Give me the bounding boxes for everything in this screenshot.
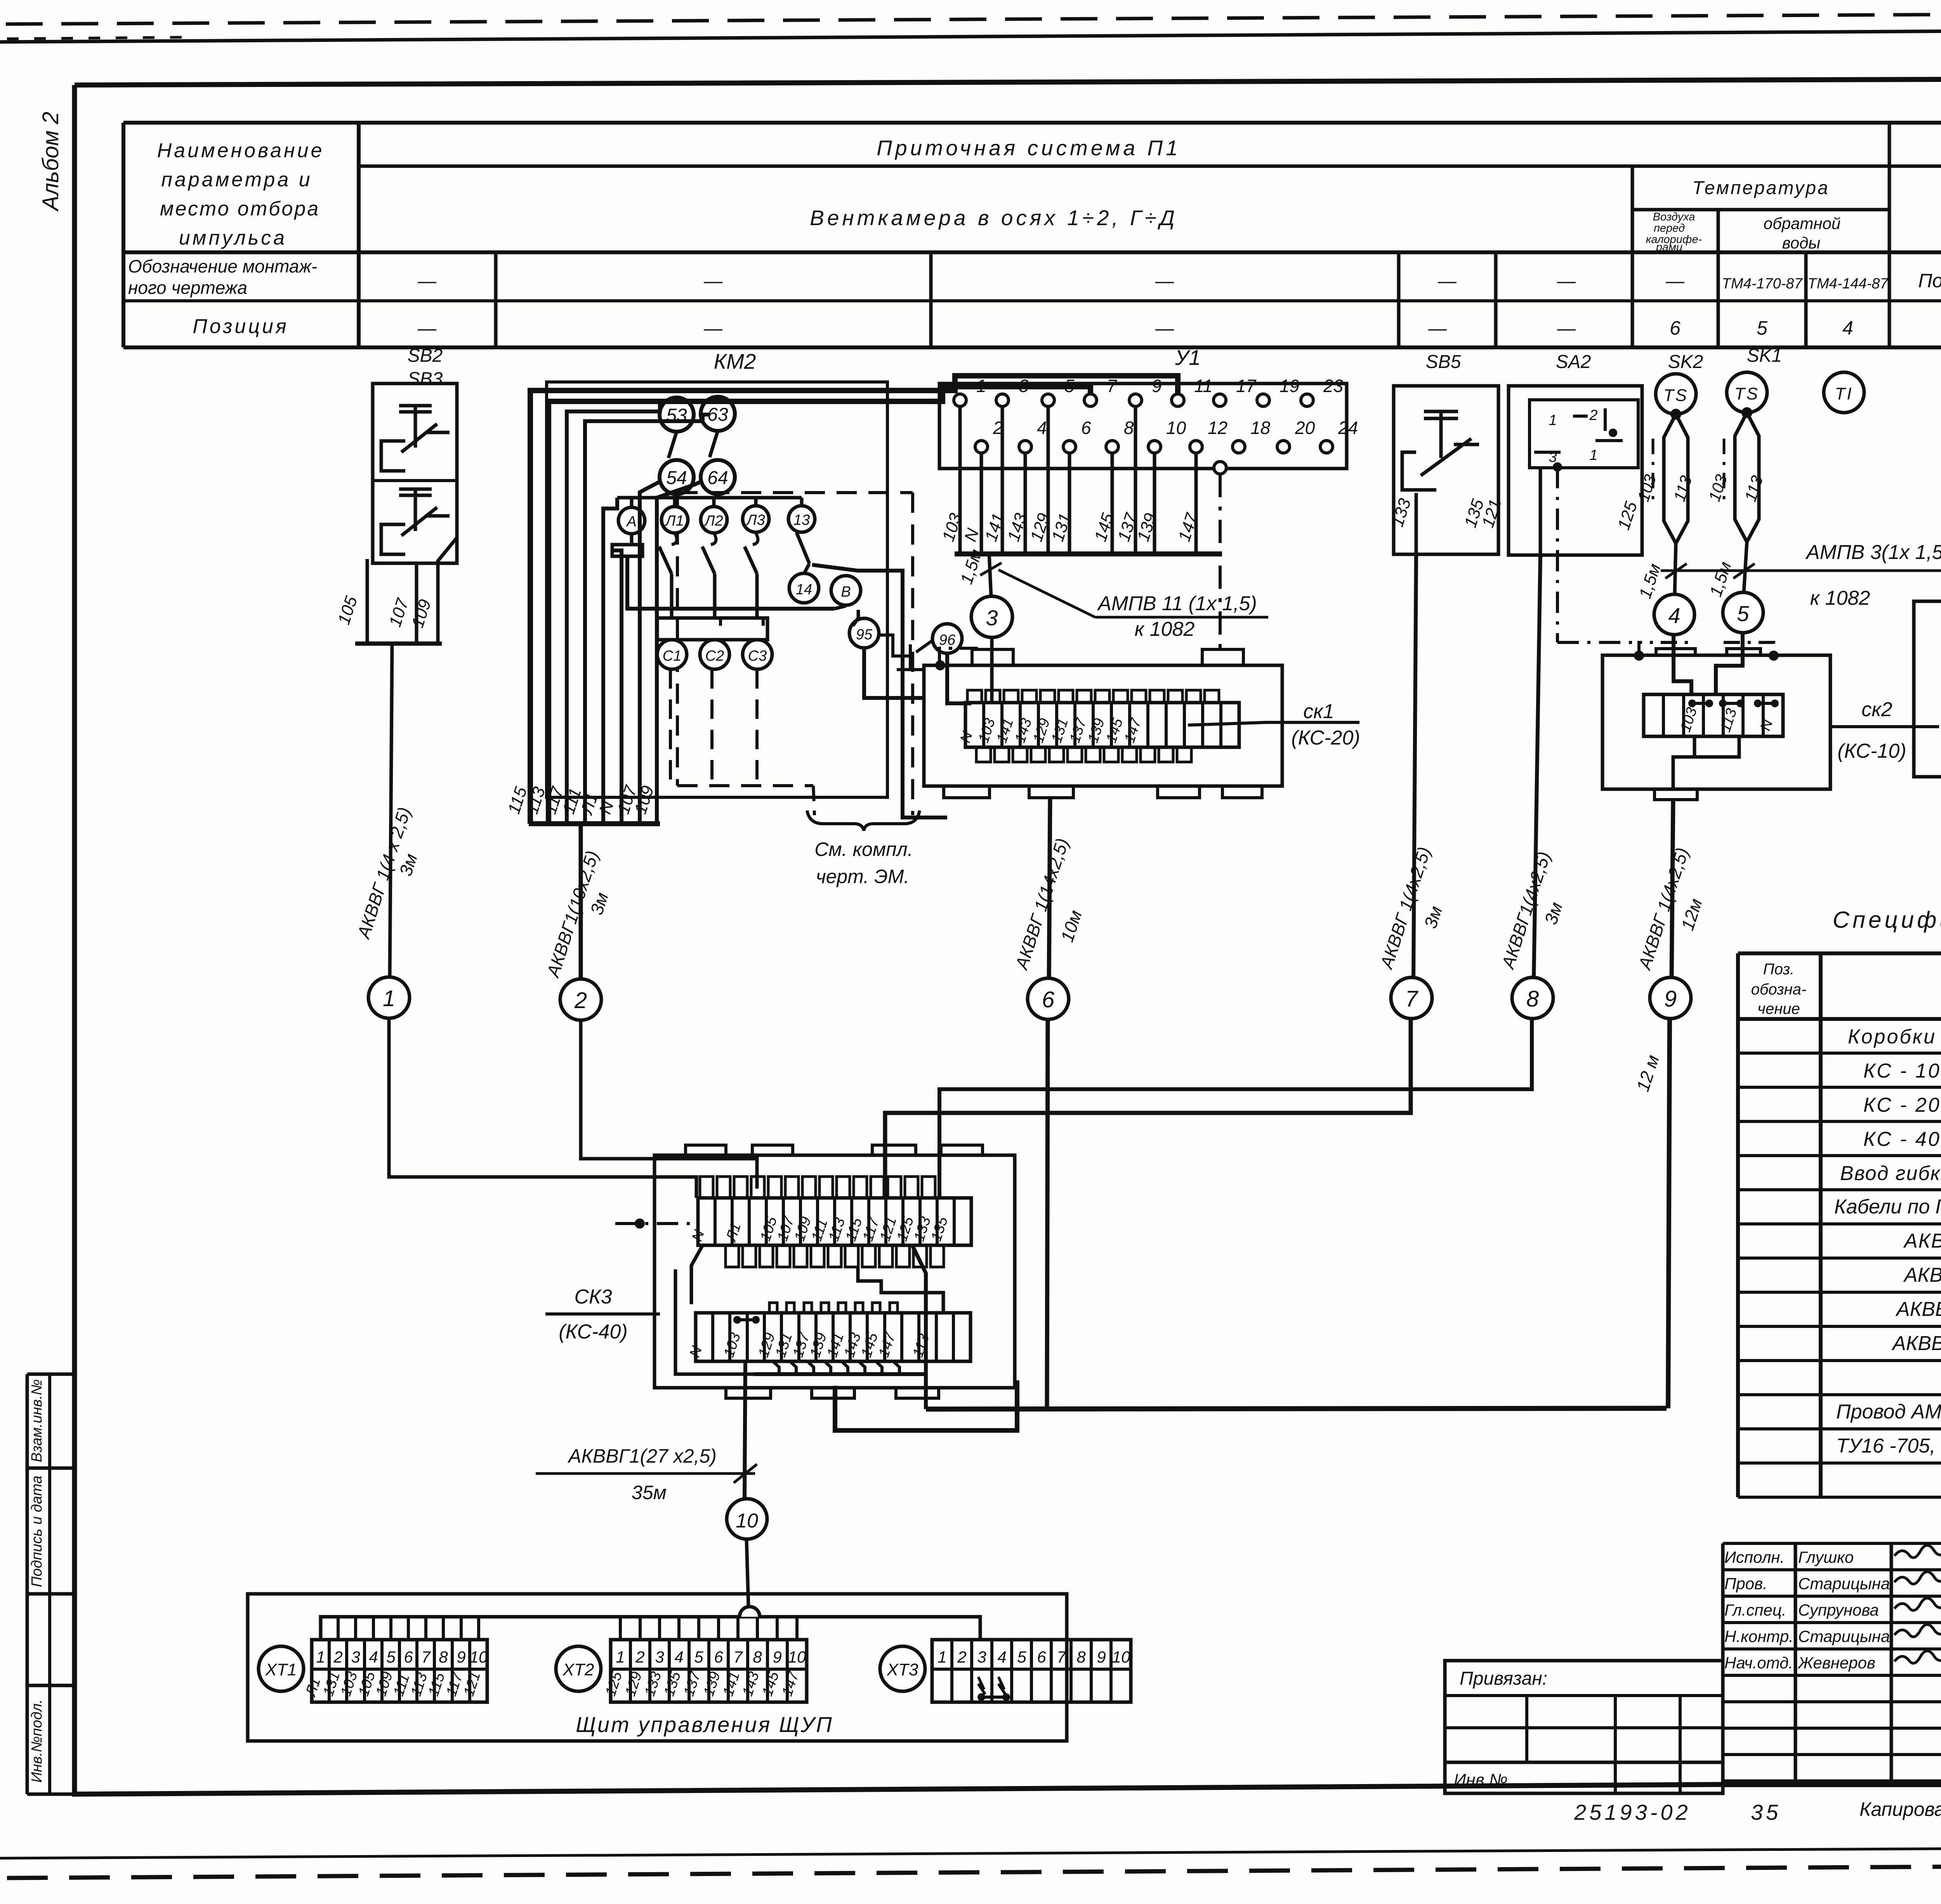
thermal relay box (657, 618, 767, 640)
СК2 terminal strip (1644, 694, 1783, 736)
svg-text:18: 18 (1250, 418, 1271, 438)
svg-text:1: 1 (616, 1648, 625, 1666)
svg-text:4: 4 (1842, 317, 1853, 339)
svg-text:6: 6 (1037, 1648, 1046, 1666)
svg-text:63: 63 (707, 404, 728, 425)
circle 14 (789, 573, 819, 603)
svg-text:(КС-10): (КС-10) (1837, 740, 1906, 762)
wire from node 2 to СК3 (581, 1020, 757, 1189)
pushbutton contact SB3 (414, 489, 417, 531)
svg-text:Жевнеров: Жевнеров (1797, 1654, 1875, 1672)
svg-text:4: 4 (1668, 603, 1680, 628)
svg-text:КС - 40: КС - 40 (1863, 1128, 1941, 1151)
wire from node 1 to CK3 (389, 1018, 696, 1198)
svg-text:10: 10 (470, 1648, 488, 1666)
svg-text:Л3: Л3 (745, 512, 765, 528)
СК1 top tab (972, 649, 1013, 665)
bottom thin line (0, 1846, 1941, 1858)
svg-text:КС - 10: КС - 10 (1863, 1060, 1941, 1082)
svg-text:Приточная система П1: Приточная система П1 (877, 136, 1181, 160)
svg-text:У1: У1 (1175, 345, 1201, 370)
dash-dot bracket at СК1 top-left (939, 648, 978, 664)
svg-text:С3: С3 (748, 648, 767, 664)
bundle wire 111 to contact 63 (585, 415, 709, 824)
svg-text:6: 6 (1042, 987, 1055, 1012)
Привязан box (1445, 1661, 1723, 1793)
svg-text:2: 2 (574, 988, 587, 1013)
svg-text:Спецификация: Спецификация (1833, 907, 1941, 933)
SK2 sensor fork wires 103/113 (1670, 409, 1681, 420)
svg-text:11: 11 (1194, 376, 1213, 396)
svg-text:8: 8 (753, 1648, 762, 1666)
СК2 jumper bars with dots (1692, 702, 1709, 705)
top bus inside KM2 (617, 496, 802, 500)
СК3 bottom feet (726, 1388, 771, 1398)
svg-text:КМ2: КМ2 (714, 349, 756, 373)
switch stroke 63-64 (710, 431, 718, 457)
svg-text:Кабели по ГОСТ 1508-78*Е, 6: Кабели по ГОСТ 1508-78*Е, 660В (1834, 1196, 1941, 1218)
svg-text:23: 23 (1323, 376, 1344, 396)
svg-text:перед: перед (1654, 222, 1685, 234)
svg-text:—: — (703, 271, 723, 292)
svg-text:9: 9 (1664, 986, 1677, 1012)
brace см.компл (807, 811, 920, 831)
dash-dot into СК3 with dot (615, 1222, 696, 1225)
svg-text:—: — (417, 271, 437, 292)
svg-text:С1: С1 (663, 648, 682, 664)
svg-text:ХТ2: ХТ2 (563, 1660, 594, 1679)
svg-text:Привязан:: Привязан: (1460, 1668, 1547, 1689)
svg-text:3: 3 (977, 1648, 986, 1666)
node 4 circle (1654, 594, 1694, 635)
pushbutton contact SB2 (414, 406, 417, 448)
svg-text:2: 2 (957, 1648, 966, 1666)
svg-text:4: 4 (369, 1648, 378, 1666)
svg-text:—: — (1557, 271, 1576, 292)
node 3 circle (971, 596, 1012, 637)
wire node 10 to ЩУП (747, 1539, 748, 1607)
svg-text:(КС-20): (КС-20) (1291, 727, 1360, 749)
svg-text:10: 10 (788, 1648, 806, 1666)
svg-text:6: 6 (1670, 317, 1681, 339)
svg-text:—: — (1155, 271, 1174, 292)
svg-text:8: 8 (1124, 418, 1134, 438)
bundle wire 113 to У1 terminal 7 (549, 387, 1090, 824)
У1 terminal wires down (958, 406, 962, 554)
svg-text:—: — (417, 318, 437, 339)
svg-text:12: 12 (1208, 418, 1227, 438)
dash-dot corners above СК2 (1639, 642, 1689, 656)
junction box СК3 outline (655, 1155, 1015, 1388)
node 5 circle (1723, 592, 1763, 633)
svg-text:35м: 35м (632, 1482, 667, 1503)
switch stroke 53-54 (668, 432, 677, 458)
СК3 top tabs (686, 1145, 726, 1155)
svg-text:—: — (1557, 318, 1576, 339)
svg-text:В: В (841, 584, 851, 600)
svg-text:Л1: Л1 (664, 513, 684, 529)
svg-text:Гл.спец.: Гл.спец. (1724, 1601, 1786, 1619)
dashed wires below С circles (669, 669, 672, 782)
svg-text:64: 64 (707, 468, 728, 488)
tick mark on wire (980, 563, 1002, 575)
svg-text:4: 4 (1037, 418, 1047, 438)
wire fork SK2 to node 4 with 1,5м (1675, 543, 1676, 594)
svg-text:Температура: Температура (1692, 178, 1830, 198)
svg-text:Коробки соединительные: Коробки соединительные (1848, 1026, 1941, 1048)
node 9 circle (1650, 977, 1691, 1019)
wire 13 to СК1 area (812, 565, 947, 817)
bundle wire 115 to У1 terminal 11 (530, 376, 1178, 824)
svg-text:95: 95 (856, 627, 873, 643)
СК2 bottom tab (1655, 789, 1697, 800)
СК3 lower terminal strip (696, 1313, 970, 1361)
wire B to bus (835, 606, 846, 609)
wire node9 down to long bus (1668, 1019, 1670, 1408)
svg-text:обратной: обратной (1764, 214, 1841, 233)
svg-text:рами: рами (1656, 241, 1682, 253)
SB wires bottom bus (355, 642, 442, 646)
svg-text:Наименование: Наименование (157, 139, 325, 162)
svg-text:Пров.: Пров. (1724, 1574, 1767, 1593)
svg-text:черт. ЭМ.: черт. ЭМ. (816, 866, 910, 887)
node 10 circle (727, 1499, 767, 1539)
svg-text:к 1082: к 1082 (1135, 618, 1195, 640)
У1 extra terminal on bottom edge (1214, 462, 1226, 474)
У1 bottom bus (955, 552, 1222, 557)
main contact circles А Л1 Л2 Л3 13 (618, 507, 645, 534)
cable wire У1 to node 3 (989, 554, 991, 596)
svg-text:—: — (1438, 271, 1457, 292)
KM2 auxiliary contact circles 53 63 54 64 (660, 397, 694, 432)
cable wire to node 2 (579, 824, 583, 979)
svg-text:АКВВГ 10 х 2,5: АКВВГ 10 х 2,5 (1903, 1264, 1941, 1286)
svg-text:АКВВГ 27 х 2,5: АКВВГ 27 х 2,5 (1891, 1332, 1941, 1355)
svg-text:место отбора: место отбора (160, 198, 320, 220)
svg-text:7: 7 (1107, 376, 1117, 396)
SA2 inner detail (1530, 400, 1638, 468)
svg-text:TS: TS (1663, 386, 1688, 405)
SA2 wires down / dash-dot (1539, 468, 1542, 555)
circle 95 (849, 618, 879, 648)
wire stubs 105/107/109 below SB2 box (366, 559, 369, 644)
wire node3 to СК1 strip (990, 637, 994, 703)
svg-text:—: — (1665, 271, 1685, 292)
instrument TS (SK1) (1727, 372, 1767, 413)
svg-text:7: 7 (1057, 1648, 1066, 1666)
svg-text:Альбом 2: Альбом 2 (38, 112, 63, 212)
СК1 terminal strip (965, 703, 1239, 747)
bottom dashed line (7, 1863, 1941, 1878)
svg-text:ТМ4-144-87: ТМ4-144-87 (1807, 276, 1889, 292)
svg-text:ТУ16 -705, 145-80: ТУ16 -705, 145-80 (1836, 1435, 1941, 1457)
svg-text:См. компл.: См. компл. (814, 838, 913, 860)
svg-text:13: 13 (793, 512, 810, 528)
cable SA2 to node 8 (1534, 555, 1540, 977)
У1 terminals even row (975, 441, 988, 453)
pushbutton box SB2/SB3 (373, 384, 457, 563)
svg-text:8: 8 (1526, 986, 1539, 1012)
svg-text:Обозначение монтаж-: Обозначение монтаж- (128, 256, 317, 276)
svg-text:6: 6 (1081, 418, 1091, 438)
node 6 circle (1028, 978, 1069, 1019)
СК1 bottom feet (944, 786, 990, 798)
cable СК3 to node 10 (745, 1361, 745, 1499)
thermal element transistor symbol (879, 635, 910, 656)
terminal strip XT2 circle (556, 1646, 601, 1691)
svg-text:9: 9 (1152, 376, 1162, 396)
circle В (831, 576, 861, 605)
СК3 upper strip bottom tabs (726, 1245, 739, 1267)
terminal strip XT1 circle (259, 1646, 304, 1691)
svg-text:19: 19 (1280, 376, 1299, 396)
SB5 internal wires down (1415, 493, 1418, 554)
svg-text:ск1: ск1 (1303, 700, 1334, 723)
СК3 lower strip bottom elbows and bus (773, 1361, 779, 1374)
svg-text:9: 9 (1097, 1648, 1106, 1666)
svg-text:Инв.№: Инв.№ (1454, 1770, 1508, 1789)
svg-text:SK2: SK2 (1668, 352, 1703, 372)
main contact strokes Л1 Л2 Л3 (659, 547, 672, 574)
svg-text:3: 3 (986, 606, 998, 630)
left stamp column (26, 1374, 29, 1794)
title block signature grid (1723, 1542, 1941, 1545)
svg-text:параметра и: параметра и (161, 168, 312, 191)
instrument TS (SK2) (1656, 374, 1696, 414)
svg-text:1: 1 (383, 986, 395, 1011)
connector У1 box (939, 384, 1347, 469)
panel box ЩУ1 (1914, 601, 1941, 777)
svg-text:ХТ3: ХТ3 (887, 1660, 918, 1679)
dashed contactor boundary box (677, 491, 913, 494)
leader АМПВ 11 (998, 570, 1095, 617)
svg-text:—: — (703, 318, 723, 339)
svg-text:TS: TS (1734, 384, 1759, 403)
svg-text:35: 35 (1751, 1800, 1781, 1824)
terminal strip XT3 (932, 1640, 1131, 1702)
bundle wire N to coil (612, 550, 622, 824)
terminal strip XT2 (611, 1640, 807, 1702)
СК3 lower strip top bumps (769, 1303, 777, 1313)
node 8 circle (1512, 977, 1553, 1019)
svg-text:1: 1 (1549, 412, 1557, 429)
svg-text:(КС-40): (КС-40) (559, 1321, 627, 1343)
svg-text:Ввод гибкий К 1082: Ввод гибкий К 1082 (1840, 1162, 1941, 1185)
svg-text:ТМ4-170-87: ТМ4-170-87 (1722, 276, 1803, 292)
svg-text:СК3: СК3 (574, 1286, 612, 1308)
СК1 top tab 2 (1202, 649, 1243, 665)
СК1 strip top tabs (967, 690, 982, 703)
svg-text:7: 7 (733, 1648, 743, 1666)
svg-text:SB3: SB3 (408, 369, 443, 389)
U jumper under СК3 (835, 1380, 1017, 1430)
svg-text:Старицына: Старицына (1798, 1627, 1890, 1645)
СК3 upper strip top tabs (700, 1177, 713, 1198)
svg-text:АМПВ 11 (1х 1,5): АМПВ 11 (1х 1,5) (1097, 592, 1257, 615)
svg-text:Глушко: Глушко (1798, 1548, 1854, 1566)
wire node 6 down to bus (1047, 1019, 1048, 1409)
cable bundle baseline (529, 821, 660, 826)
svg-text:Н.контр.: Н.контр. (1724, 1627, 1793, 1645)
svg-text:По чертежам завода: По чертежам завода (1918, 270, 1941, 292)
svg-text:17: 17 (1236, 376, 1257, 396)
junction box СК1 outline (924, 665, 1282, 786)
svg-text:4: 4 (674, 1648, 683, 1666)
pushbutton contact SB5 (1439, 411, 1443, 458)
contactor KM2 outer box (547, 382, 887, 797)
svg-text:5: 5 (1757, 317, 1767, 339)
svg-text:5: 5 (1737, 601, 1749, 626)
svg-text:2: 2 (1589, 407, 1597, 423)
cable label АМПВ 3(1х1,5) к 1082 (1661, 569, 1941, 572)
circle 96 (932, 624, 962, 653)
СК3 lower strip jumper dot (737, 1318, 756, 1321)
svg-text:4: 4 (997, 1648, 1006, 1666)
dash-dot wire from У1 to СК1 tab (1219, 474, 1222, 650)
svg-text:ХТ1: ХТ1 (265, 1660, 297, 1679)
svg-text:3: 3 (655, 1648, 664, 1666)
wire node4 to СК2 strip (1674, 635, 1691, 694)
wire lower strip 113 to long bus (912, 1245, 926, 1409)
svg-text:9: 9 (773, 1648, 781, 1666)
svg-text:АМПВ 3(1х 1,5): АМПВ 3(1х 1,5) (1805, 541, 1941, 564)
bundle wire 117 to contact 53 (567, 399, 677, 824)
svg-text:Поз.: Поз. (1763, 961, 1795, 978)
switch box SA2 (1509, 386, 1642, 555)
svg-text:2: 2 (635, 1648, 644, 1666)
svg-text:обозна-: обозна- (1751, 981, 1807, 998)
node 1 circle (368, 977, 410, 1018)
svg-text:Взам.инв.№: Взам.инв.№ (29, 1379, 45, 1462)
svg-text:С2: С2 (705, 648, 724, 664)
svg-text:к 1082: к 1082 (1810, 587, 1870, 609)
contact stroke 13-14 (797, 533, 809, 564)
svg-text:Подпись и дата: Подпись и дата (29, 1475, 45, 1587)
svg-text:1: 1 (938, 1648, 946, 1666)
svg-text:25193-02: 25193-02 (1574, 1800, 1691, 1824)
bundle wire Л1 into dashed box bus (603, 498, 617, 824)
bundle wire 107 to contact 54 (640, 481, 660, 824)
svg-text:Воздуха: Воздуха (1653, 211, 1695, 223)
wire node5 to СК2 strip (1716, 633, 1743, 694)
bundle wire 109 to contact 64 (657, 481, 701, 824)
svg-text:Супрунова: Супрунова (1798, 1601, 1879, 1619)
svg-text:9: 9 (457, 1648, 465, 1666)
dash-dot stub left of SK2 fork (1652, 439, 1655, 501)
circles С1 С2 С3 (657, 640, 687, 669)
svg-text:SB5: SB5 (1426, 352, 1461, 372)
svg-text:6: 6 (714, 1648, 723, 1666)
svg-text:7: 7 (1405, 986, 1419, 1012)
svg-text:Исполн.: Исполн. (1724, 1548, 1785, 1566)
svg-text:5: 5 (386, 1648, 396, 1666)
svg-text:Щит управления ЩУП: Щит управления ЩУП (576, 1712, 833, 1737)
svg-text:8: 8 (439, 1648, 448, 1666)
svg-text:А: А (626, 514, 636, 530)
svg-text:3: 3 (1019, 376, 1029, 396)
XT3 switch marks in cells 3-4 (978, 1677, 985, 1694)
svg-text:24: 24 (1338, 418, 1358, 438)
svg-text:импульса: импульса (179, 227, 287, 249)
wire node7 to СК3 (885, 1019, 1411, 1198)
svg-text:Провод АМПВ 1х1,5, 380В,: Провод АМПВ 1х1,5, 380В, (1836, 1401, 1941, 1423)
cable SB5 to node 7 (1413, 554, 1416, 977)
svg-text:КС - 20: КС - 20 (1863, 1094, 1941, 1116)
svg-text:Старицына: Старицына (1798, 1574, 1890, 1593)
top parameters table grid (123, 121, 1941, 125)
svg-text:АКВВГ1(27 х2,5): АКВВГ1(27 х2,5) (567, 1445, 717, 1467)
svg-text:Л2: Л2 (703, 513, 723, 529)
svg-text:2: 2 (333, 1648, 342, 1666)
contact hooks under Л circles (672, 533, 677, 545)
svg-text:воды: воды (1782, 234, 1821, 252)
svg-text:10: 10 (1166, 418, 1186, 438)
wires 95 96 exits east (864, 648, 925, 698)
svg-text:1: 1 (976, 376, 986, 396)
У1 terminals odd row (954, 394, 966, 406)
svg-text:SB2: SB2 (408, 345, 443, 366)
node 7 circle (1391, 977, 1432, 1019)
СК3 inner jumper wires upper to lower strip (691, 1245, 703, 1304)
svg-text:3: 3 (351, 1648, 360, 1666)
spec table grid (1738, 951, 1941, 955)
wire fork SK1 to node 5 with 1,5м (1744, 542, 1747, 593)
svg-text:96: 96 (939, 632, 956, 648)
СК2 strip exit wires (1673, 736, 1694, 789)
svg-text:10: 10 (736, 1510, 758, 1532)
top solid line (0, 28, 1941, 42)
svg-text:54: 54 (666, 468, 687, 488)
svg-text:1: 1 (316, 1648, 325, 1666)
node 2 circle (560, 979, 601, 1020)
СК2 top tabs (1656, 649, 1695, 655)
SK1 sensor fork wires 103/113 (1741, 407, 1752, 418)
svg-text:ск2: ск2 (1861, 698, 1892, 721)
svg-text:10: 10 (1112, 1648, 1130, 1666)
svg-text:SA2: SA2 (1556, 352, 1591, 372)
coil rectangle (612, 545, 642, 556)
svg-text:5: 5 (694, 1648, 703, 1666)
terminal strip XT1 (312, 1640, 487, 1702)
svg-text:Инв.№подл.: Инв.№подл. (29, 1699, 45, 1783)
long bus line to СК2 cable (926, 1408, 1667, 1409)
terminal strip XT3 circle (880, 1646, 925, 1691)
svg-text:5: 5 (1064, 376, 1075, 396)
control panel ЩУП box (248, 1594, 1067, 1741)
svg-text:Нач.отд.: Нач.отд. (1724, 1654, 1793, 1672)
svg-text:20: 20 (1295, 418, 1315, 438)
svg-text:АКВВГ 14х 2,5: АКВВГ 14х 2,5 (1895, 1298, 1941, 1321)
svg-text:8: 8 (1076, 1648, 1086, 1666)
svg-text:7: 7 (421, 1648, 431, 1666)
svg-text:АКВВГ 4х 2,5: АКВВГ 4х 2,5 (1903, 1230, 1941, 1252)
svg-text:1: 1 (1589, 447, 1597, 463)
cable СК1 to node 6 (1049, 798, 1050, 986)
junction box СК2 outline (1602, 655, 1830, 789)
СК3 upper terminal strip (698, 1198, 971, 1245)
cable СК2 to node 9 (1672, 800, 1673, 977)
cable entry bump (740, 1607, 760, 1617)
svg-text:Капировала : Кузнецова: Капировала : Кузнецова (1859, 1798, 1941, 1820)
svg-text:—: — (1155, 318, 1174, 339)
СК1 strip bottom tabs (976, 747, 991, 762)
top dashed border line (6, 12, 1941, 24)
pushbutton box SB5 (1394, 386, 1498, 554)
instrument TI (1824, 372, 1864, 413)
svg-text:SK1: SK1 (1747, 345, 1782, 366)
svg-text:6: 6 (404, 1648, 413, 1666)
95 connection (853, 610, 858, 626)
